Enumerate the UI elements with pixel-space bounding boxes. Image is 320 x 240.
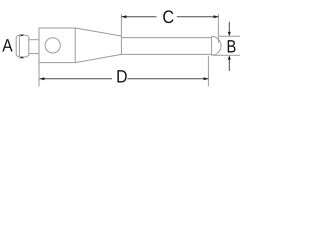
ext line D left bbox=[38, 63, 40, 87]
dim line C bbox=[122, 16, 157, 18]
ext line D right with ball back face bbox=[211, 36, 213, 55]
neck bottom wire bbox=[29, 53, 39, 55]
ball arc bbox=[212, 36, 221, 55]
svg-text:C: C bbox=[162, 7, 174, 27]
holder body bbox=[39, 28, 75, 63]
B up arrow bbox=[228, 59, 230, 71]
cone top line bbox=[75, 28, 121, 36]
ext line D right bbox=[207, 56, 209, 86]
dim line D bbox=[40, 78, 112, 80]
cone bottom line bbox=[75, 54, 121, 62]
ext line C left bbox=[120, 14, 122, 55]
ext line B bottom bbox=[212, 54, 240, 56]
arrow C left bbox=[122, 15, 127, 18]
arrow C right bbox=[214, 15, 219, 18]
ext line C right bbox=[217, 14, 219, 43]
svg-text:D: D bbox=[116, 67, 127, 87]
thread relief line bbox=[18, 35, 20, 56]
arrow D right bbox=[204, 77, 209, 80]
A bottom arrow bbox=[19, 57, 24, 59]
A top arrow bbox=[19, 35, 24, 37]
threaded cap outline bbox=[16, 35, 29, 57]
neck top wire bbox=[29, 39, 39, 41]
ext line B top bbox=[218, 35, 240, 37]
arrow D left bbox=[40, 77, 45, 80]
svg-text:A: A bbox=[2, 36, 12, 56]
cross hole circle bbox=[45, 38, 60, 53]
svg-text:B: B bbox=[227, 36, 237, 56]
stem top line bbox=[121, 37, 211, 39]
B down arrow bbox=[228, 22, 230, 32]
stem bottom line bbox=[121, 53, 211, 55]
